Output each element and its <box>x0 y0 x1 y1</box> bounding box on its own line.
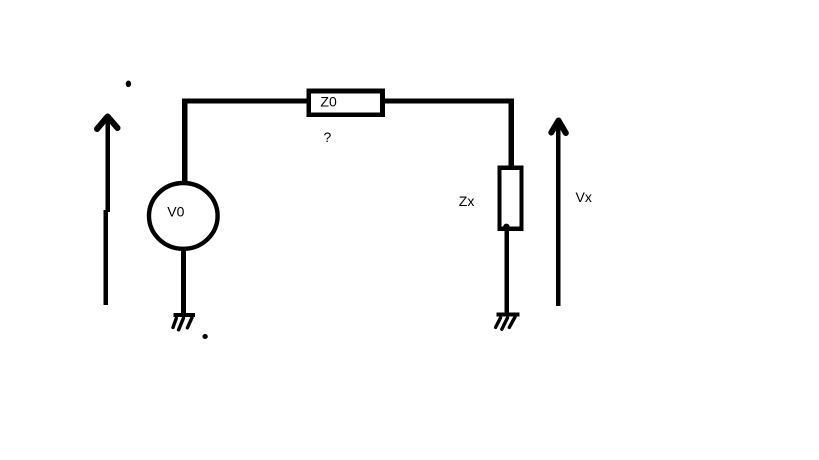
arrow V0 reference (left, pointing up) <box>97 116 118 305</box>
stray dot near V0 ground <box>202 334 207 339</box>
svg-text:Zx: Zx <box>459 193 475 209</box>
svg-text:Z0: Z0 <box>320 94 337 110</box>
arrow Vx (right, pointing up) <box>551 121 566 307</box>
ground under V0 <box>173 313 195 330</box>
wire: Zx bottom stem to ground <box>505 227 510 315</box>
impedance Z0 (box) <box>309 91 383 115</box>
svg-text:Vx: Vx <box>576 189 592 205</box>
svg-text:V0: V0 <box>167 204 184 220</box>
stray dot near top-left <box>126 81 131 88</box>
wire: vertical from corner down to V0 circle <box>182 99 187 183</box>
wire: vertical from top-right corner down to Zx <box>508 99 514 169</box>
voltage source V0 (circle) <box>149 183 218 249</box>
wire: V0 top to Z0 to corner (horizontal run) <box>182 99 512 104</box>
ground under Zx <box>496 313 520 330</box>
junction dot at Zx bottom <box>503 224 509 230</box>
wire: V0 bottom stem to ground <box>181 249 186 315</box>
svg-text:?: ? <box>324 129 332 145</box>
impedance Zx (box) <box>500 168 522 229</box>
